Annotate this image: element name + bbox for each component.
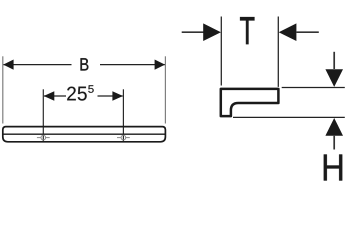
bar inner line	[2, 133, 166, 135]
screw hole crosshair right	[117, 135, 130, 140]
H arrow down (above top line)	[333, 52, 335, 69]
arrowhead B right	[155, 60, 165, 70]
label 25 digit 2	[67, 87, 76, 101]
profile outline (side view)	[221, 89, 279, 116]
screw hole crosshair left	[37, 135, 50, 140]
extension line right (T)	[277, 17, 279, 87]
extension line right (B)	[164, 56, 166, 123]
bottom reference line (H)	[233, 116, 345, 118]
top reference line (H)	[282, 87, 345, 89]
T dimension arrow right	[297, 31, 319, 33]
extension line left (B)	[2, 56, 4, 123]
arrowhead B left	[3, 60, 13, 70]
label 25 superscript 5	[88, 85, 93, 93]
label T	[240, 17, 254, 44]
H arrow up (below bottom line)	[333, 136, 335, 150]
arrowhead 25 left	[44, 91, 55, 101]
extension/center line left (25)	[42, 89, 44, 142]
label H	[324, 154, 342, 180]
label 25 digit 5	[78, 87, 87, 101]
label B	[81, 58, 89, 70]
extension line left (T)	[220, 17, 222, 86]
T dimension arrow left	[182, 31, 204, 33]
dimension line B	[4, 64, 72, 66]
arrowhead 25 right	[112, 91, 123, 101]
bar outline (front view)	[3, 127, 166, 142]
extension/center line right (25)	[122, 89, 124, 142]
dimension line 25	[44, 95, 66, 97]
